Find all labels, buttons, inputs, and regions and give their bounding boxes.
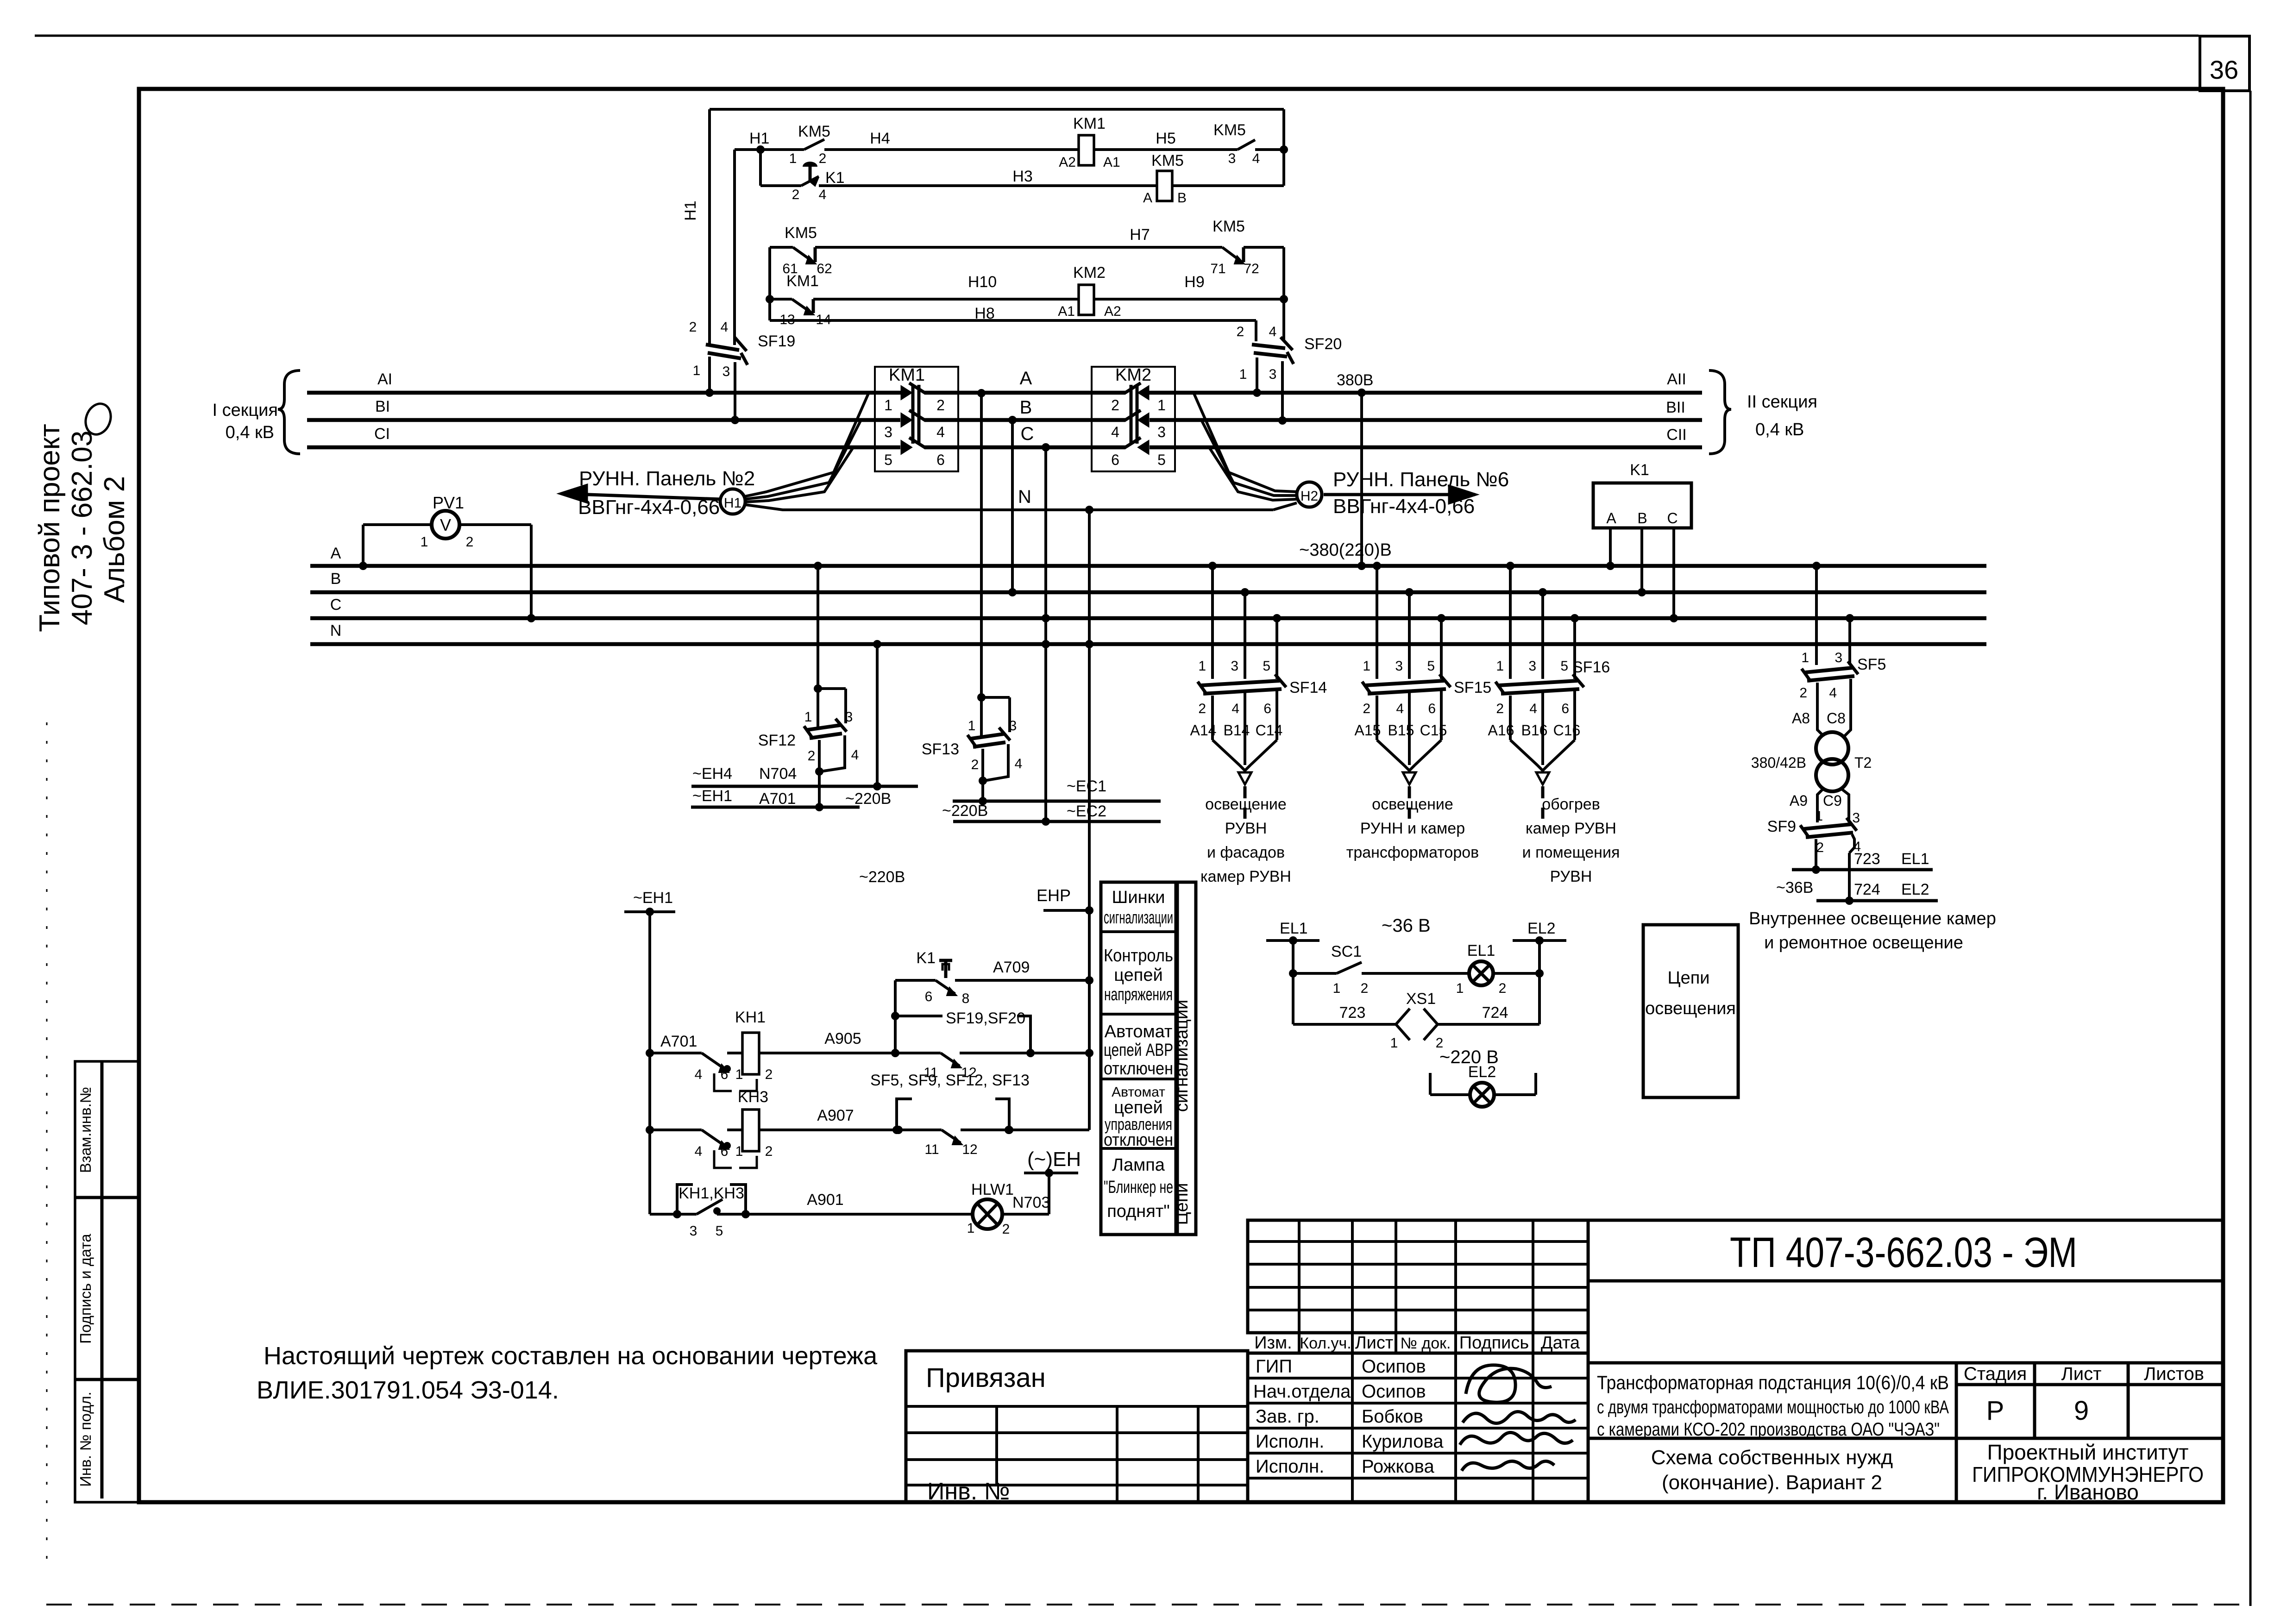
svg-text:KM1: KM1	[786, 272, 819, 290]
svg-text:KM5: KM5	[1151, 152, 1184, 169]
svg-text:KM5: KM5	[785, 224, 817, 242]
contact KM5 1-2 (H4)	[804, 139, 824, 150]
svg-text:SF14: SF14	[1289, 679, 1327, 696]
signature scribbles	[1466, 1365, 1552, 1402]
svg-text:Лист: Лист	[1355, 1333, 1394, 1353]
svg-text:11: 11	[924, 1142, 939, 1157]
svg-text:Инв. №: Инв. №	[927, 1478, 1010, 1505]
wire line 723 EL1	[1792, 868, 1933, 872]
wire EH1 left vertical	[648, 912, 651, 1214]
wire A905	[759, 1052, 895, 1054]
title block header labels	[1248, 1331, 1588, 1335]
wire line A701	[691, 806, 860, 809]
svg-text:EL2: EL2	[1468, 1063, 1496, 1081]
svg-text:1: 1	[1333, 981, 1341, 996]
node (~)EH	[1048, 1173, 1050, 1214]
sheet number box 36	[2200, 36, 2249, 91]
title block document number cell	[1588, 1220, 2223, 1281]
svg-text:г. Иваново: г. Иваново	[2037, 1480, 2139, 1504]
svg-text:Рожкова: Рожкова	[1362, 1456, 1434, 1477]
svg-text:N704: N704	[759, 765, 797, 783]
svg-text:C: C	[330, 596, 342, 614]
svg-text:3: 3	[1528, 658, 1536, 674]
wire rung H3	[760, 184, 801, 187]
svg-text:HLW1: HLW1	[971, 1181, 1014, 1198]
wire T2 outputs	[1817, 788, 1824, 822]
svg-text:3: 3	[1852, 810, 1860, 826]
svg-text:№ док.: № док.	[1401, 1335, 1451, 1352]
svg-text:SF5: SF5	[1857, 656, 1886, 673]
svg-text:Инв. № подл.: Инв. № подл.	[77, 1392, 94, 1487]
svg-text:N: N	[330, 622, 342, 640]
svg-text:V: V	[440, 515, 451, 534]
svg-text:36: 36	[2210, 55, 2238, 84]
svg-text:SF12: SF12	[758, 732, 796, 749]
svg-text:2: 2	[808, 748, 816, 764]
svg-text:освещение: освещение	[1205, 796, 1287, 813]
svg-text:723: 723	[1854, 850, 1880, 868]
contact K1 with pushbutton (H3)	[801, 176, 819, 186]
svg-text:Курилова: Курилова	[1362, 1431, 1444, 1452]
svg-text:4: 4	[1015, 756, 1023, 771]
svg-text:6: 6	[721, 1067, 729, 1082]
svg-text:AII: AII	[1667, 370, 1686, 388]
svg-text:5: 5	[1157, 451, 1166, 468]
svg-text:SF19,SF20: SF19,SF20	[946, 1010, 1025, 1027]
wire SF20 pin3 to bus BII	[1281, 361, 1284, 420]
KM2 contact row C	[1138, 441, 1149, 454]
title block empty band	[1588, 1281, 2223, 1363]
feeder arrow РУНН panel 2	[561, 494, 720, 499]
svg-text:1: 1	[804, 709, 812, 725]
svg-text:H4: H4	[870, 130, 890, 147]
svg-text:ГИП: ГИП	[1256, 1356, 1292, 1377]
svg-text:1: 1	[421, 534, 428, 550]
svg-text:A901: A901	[807, 1191, 843, 1209]
svg-text:B: B	[331, 570, 341, 588]
wire K1 lead A	[1609, 528, 1612, 566]
svg-text:EL1: EL1	[1467, 942, 1495, 959]
svg-text:4: 4	[695, 1144, 703, 1159]
scan page edge bottom dashed line	[46, 1604, 2251, 1605]
lamp HLW1	[973, 1199, 1002, 1229]
svg-text:2: 2	[792, 187, 800, 202]
svg-text:~EC2: ~EC2	[1067, 803, 1106, 820]
svg-text:2: 2	[936, 397, 945, 414]
breaker SF12	[814, 684, 822, 693]
svg-text:Исполн.: Исполн.	[1256, 1456, 1324, 1477]
svg-text:3: 3	[845, 709, 853, 725]
bus lower B	[310, 590, 1986, 595]
svg-text:6: 6	[1111, 451, 1119, 468]
node H1	[756, 145, 765, 154]
svg-text:EHP: EHP	[1037, 886, 1071, 905]
svg-text:и фасадов: и фасадов	[1207, 844, 1285, 861]
relay coil KH1	[742, 1033, 759, 1074]
svg-text:CI: CI	[374, 425, 390, 443]
svg-text:4: 4	[851, 747, 859, 763]
svg-text:C15: C15	[1420, 722, 1447, 739]
svg-text:A905: A905	[824, 1030, 861, 1047]
wire SF5 outputs to T2	[1816, 683, 1819, 719]
svg-text:723: 723	[1339, 1004, 1366, 1022]
svg-text:~EC1: ~EC1	[1067, 778, 1106, 795]
svg-text:Изм.: Изм.	[1254, 1333, 1292, 1353]
svg-text:5: 5	[1560, 658, 1568, 674]
svg-text:освещения: освещения	[1645, 999, 1736, 1018]
wire A907 to contact	[759, 1129, 898, 1131]
svg-text:B: B	[1177, 190, 1187, 206]
svg-text:"Блинкер не: "Блинкер не	[1104, 1178, 1173, 1197]
relay K1 box	[1593, 483, 1691, 528]
lamp EL2 circuit	[1429, 1073, 1432, 1095]
wire box2 top	[770, 246, 793, 249]
svg-text:EL2: EL2	[1901, 881, 1929, 898]
title block attachment box Привязан	[906, 1351, 1248, 1502]
KM2 tie bar	[1130, 385, 1133, 444]
svg-text:1: 1	[1198, 658, 1206, 674]
svg-text:4: 4	[695, 1067, 703, 1082]
breaker SF14 pin wires	[1211, 566, 1214, 679]
svg-text:A: A	[331, 545, 341, 562]
svg-text:(окончание). Вариант 2: (окончание). Вариант 2	[1662, 1471, 1882, 1494]
svg-text:BI: BI	[375, 398, 390, 415]
svg-text:3: 3	[1228, 151, 1236, 166]
svg-text:H1: H1	[749, 130, 769, 147]
svg-text:Кол.уч.: Кол.уч.	[1300, 1335, 1351, 1352]
svg-text:~220В: ~220В	[845, 790, 891, 808]
svg-text:EL2: EL2	[1527, 920, 1556, 937]
KM1 tie bar	[911, 385, 915, 444]
bus BII	[1150, 418, 1702, 422]
svg-text:2: 2	[1361, 981, 1369, 996]
svg-text:A709: A709	[993, 959, 1030, 976]
svg-text:Нач.отдела: Нач.отдела	[1253, 1381, 1351, 1402]
wire SF19 pin1 to bus AI	[708, 357, 711, 393]
bus AII	[1147, 391, 1702, 395]
wire box2 bottom	[770, 319, 1256, 322]
coil KM5 A-B	[1157, 171, 1172, 201]
contact KH1 4-6	[702, 1053, 727, 1071]
wire EL2 vertical	[1538, 941, 1541, 1024]
svg-text:5: 5	[716, 1223, 723, 1239]
wire branch H1 to H3	[759, 150, 762, 186]
fan wires to H2	[1194, 394, 1297, 492]
svg-text:отключен: отключен	[1104, 1130, 1173, 1150]
svg-text:H1: H1	[682, 201, 699, 220]
node H2 circle	[1297, 482, 1322, 507]
wire line EC2	[953, 820, 1161, 823]
svg-text:C8: C8	[1827, 710, 1846, 727]
svg-text:3: 3	[1269, 367, 1277, 382]
coil KM1 (top)	[1079, 135, 1094, 165]
svg-text:EL1: EL1	[1280, 920, 1308, 937]
svg-text:3: 3	[723, 364, 730, 379]
wire SF14 output funnel	[1211, 696, 1214, 740]
contactor KM2 box	[1092, 367, 1175, 471]
svg-text:A2: A2	[1104, 304, 1121, 319]
svg-text:1: 1	[1801, 650, 1809, 665]
title block staff rows	[1248, 1353, 1588, 1502]
scan page edge left dotted line	[46, 722, 48, 1570]
svg-text:РУВН: РУВН	[1550, 868, 1592, 885]
svg-text:A701: A701	[759, 790, 796, 808]
svg-text:1: 1	[968, 718, 976, 734]
svg-text:Зав. гр.: Зав. гр.	[1256, 1406, 1319, 1427]
svg-text:KM5: KM5	[798, 123, 830, 140]
svg-text:2: 2	[1496, 701, 1504, 716]
svg-text:2: 2	[1237, 324, 1244, 339]
svg-text:4: 4	[1269, 324, 1277, 339]
svg-text:SF20: SF20	[1304, 335, 1342, 353]
svg-text:~36 В: ~36 В	[1382, 915, 1431, 936]
svg-text:ТП 407-3-662.03 - ЭМ: ТП 407-3-662.03 - ЭМ	[1730, 1229, 2077, 1276]
svg-text:4: 4	[1529, 701, 1537, 716]
svg-text:РУНН. Панель №2: РУНН. Панель №2	[579, 467, 755, 490]
wire line EC1	[953, 800, 1161, 803]
breaker SF14 tie bar	[1201, 681, 1280, 685]
wire feed lower C and EC2	[1042, 443, 1050, 451]
bus AI	[307, 391, 904, 395]
wire K1 contact branch A709	[894, 980, 897, 1053]
svg-text:4: 4	[721, 320, 729, 335]
svg-text:N703: N703	[1012, 1194, 1050, 1211]
svg-text:8: 8	[962, 991, 970, 1006]
svg-text:K1: K1	[916, 949, 936, 967]
svg-text:C14: C14	[1256, 722, 1283, 739]
svg-text:3: 3	[884, 424, 892, 440]
svg-text:Шинки: Шинки	[1112, 888, 1165, 907]
svg-text:и ремонтное освещение: и ремонтное освещение	[1764, 933, 1963, 953]
svg-text:Т2: Т2	[1854, 754, 1872, 771]
wire SF19 pin3 to bus BI	[734, 362, 736, 420]
svg-text:3: 3	[690, 1223, 697, 1239]
bus A mid segment	[924, 391, 1125, 395]
svg-text:4: 4	[1829, 685, 1837, 701]
svg-text:с двумя трансформаторами мощно: с двумя трансформаторами мощностью до 10…	[1597, 1397, 1949, 1417]
breaker SF16 pin wires	[1509, 566, 1512, 679]
svg-text:4: 4	[936, 424, 945, 440]
svg-text:цепей: цепей	[1114, 966, 1162, 985]
svg-text:6: 6	[1428, 701, 1436, 716]
breaker SF16 tie bar	[1499, 681, 1577, 685]
svg-text:KM2: KM2	[1073, 264, 1106, 282]
svg-text:~220В: ~220В	[942, 802, 988, 820]
svg-text:A: A	[1606, 510, 1616, 527]
wire EHP vertical	[1088, 910, 1091, 1130]
wire rung A701-A905	[646, 1049, 654, 1057]
svg-text:~220В: ~220В	[859, 868, 905, 886]
svg-text:Осипов: Осипов	[1362, 1356, 1426, 1377]
fan wires to H1	[745, 394, 868, 496]
svg-text:SF16: SF16	[1572, 658, 1610, 676]
wire PV1 right to bus C	[530, 525, 533, 618]
svg-text:724: 724	[1854, 881, 1880, 898]
KM1 contact row A	[901, 386, 911, 399]
wire SF9 pin2 to line 723	[1815, 839, 1817, 870]
svg-text:обогрев: обогрев	[1542, 796, 1600, 813]
svg-text:1: 1	[967, 1221, 975, 1236]
svg-text:Настоящий чертеж составлен на: Настоящий чертеж составлен на основании …	[264, 1342, 878, 1370]
brace section I	[278, 370, 300, 454]
drawing frame	[139, 89, 2223, 1502]
svg-text:поднят": поднят"	[1107, 1202, 1170, 1221]
wire K1 lead C	[1672, 528, 1675, 618]
wire SF15 output funnel	[1376, 696, 1378, 740]
svg-text:6: 6	[1561, 701, 1569, 716]
svg-text:Подпись: Подпись	[1459, 1333, 1529, 1353]
svg-text:~EH1: ~EH1	[633, 889, 673, 907]
svg-text:Типовой проект: Типовой проект	[34, 424, 66, 632]
bus lower N	[310, 642, 1986, 646]
svg-text:A1: A1	[1103, 155, 1120, 170]
KM1 contact row C	[901, 441, 911, 454]
svg-text:PV1: PV1	[433, 493, 464, 512]
svg-text:1: 1	[1363, 658, 1370, 674]
svg-text:6: 6	[936, 451, 945, 468]
svg-text:5: 5	[1427, 658, 1435, 674]
svg-text:~380(220)В: ~380(220)В	[1299, 540, 1392, 560]
title block object description cell	[1588, 1363, 1956, 1438]
svg-text:Исполн.: Исполн.	[1256, 1431, 1324, 1452]
svg-text:A1: A1	[1058, 304, 1075, 319]
breaker SF13	[977, 693, 986, 702]
wire N line	[804, 508, 1273, 511]
svg-text:1: 1	[1456, 981, 1464, 996]
stamp blob over 03	[82, 400, 115, 438]
svg-text:5: 5	[1263, 658, 1270, 674]
svg-text:Цепи: Цепи	[1667, 968, 1709, 988]
svg-text:Подпись и дата: Подпись и дата	[77, 1234, 94, 1344]
svg-text:4: 4	[1396, 701, 1404, 716]
svg-text:K1: K1	[1630, 461, 1649, 479]
svg-text:SF5, SF9, SF12, SF13: SF5, SF9, SF12, SF13	[870, 1072, 1030, 1089]
svg-text:Бобков: Бобков	[1362, 1406, 1423, 1427]
svg-text:SF15: SF15	[1454, 679, 1491, 696]
bus lower C	[310, 616, 1986, 621]
svg-text:A907: A907	[817, 1107, 854, 1124]
wire H9	[1094, 298, 1284, 301]
svg-text:трансформаторов: трансформаторов	[1346, 844, 1479, 861]
svg-text:KM2: KM2	[1115, 365, 1151, 385]
svg-text:РУВН: РУВН	[1225, 820, 1267, 837]
wire lamp to EH	[1002, 1213, 1049, 1216]
svg-text:C9: C9	[1823, 792, 1842, 809]
svg-text:ВВГнг-4х4-0,66: ВВГнг-4х4-0,66	[1333, 495, 1475, 518]
svg-text:71: 71	[1210, 261, 1225, 276]
svg-text:A2: A2	[1059, 155, 1076, 170]
node H4 right	[1280, 145, 1288, 154]
svg-text:(~)EH: (~)EH	[1027, 1148, 1081, 1171]
wire SF12 output to A701	[818, 771, 821, 807]
wire feed lower A from AII	[1357, 389, 1366, 397]
svg-text:KH1: KH1	[735, 1009, 766, 1026]
svg-text:1: 1	[1390, 1035, 1398, 1051]
bus B mid segment	[924, 418, 1125, 422]
svg-text:SF13: SF13	[922, 740, 959, 758]
svg-text:1: 1	[884, 397, 892, 414]
svg-text:6: 6	[1263, 701, 1271, 716]
svg-text:Взам.инв.№: Взам.инв.№	[77, 1087, 94, 1173]
svg-text:1: 1	[1157, 397, 1166, 414]
svg-text:3: 3	[1009, 718, 1017, 734]
wire SF12 pins 2-4 join	[818, 740, 821, 771]
svg-text:2: 2	[1499, 981, 1507, 996]
svg-text:2: 2	[765, 1067, 773, 1082]
svg-text:РУНН и камер: РУНН и камер	[1360, 820, 1465, 837]
svg-text:SC1: SC1	[1331, 943, 1362, 960]
bus CI	[307, 445, 900, 450]
svg-text:0,4 кВ: 0,4 кВ	[226, 423, 274, 442]
svg-text:3: 3	[1835, 650, 1842, 665]
wire N to H2	[1273, 503, 1297, 510]
svg-text:SF19: SF19	[758, 332, 795, 350]
svg-text:4: 4	[819, 187, 827, 202]
bracket SF5 SF9 SF12 SF13	[897, 1099, 912, 1130]
svg-text:A701: A701	[660, 1033, 697, 1050]
svg-text:Листов: Листов	[2144, 1364, 2204, 1384]
wire rung H10/H8	[813, 298, 1079, 301]
svg-text:N: N	[1018, 487, 1031, 507]
wire rung H4	[760, 148, 804, 151]
svg-text:2: 2	[1799, 685, 1807, 701]
svg-text:3: 3	[1157, 424, 1166, 440]
wire SF20 pin1 to bus AII	[1256, 357, 1258, 393]
svg-text:II секция: II секция	[1747, 392, 1817, 412]
svg-text:H5: H5	[1156, 130, 1175, 147]
svg-text:A: A	[1020, 368, 1032, 389]
svg-text:A: A	[1143, 190, 1152, 206]
svg-text:KH1,KH3: KH1,KH3	[679, 1185, 744, 1202]
svg-text:камер РУВН: камер РУВН	[1200, 868, 1291, 885]
svg-text:CII: CII	[1666, 426, 1686, 444]
svg-text:KM1: KM1	[1073, 115, 1106, 132]
contact KH3 4-6	[702, 1130, 727, 1147]
svg-text:Стадия: Стадия	[1964, 1364, 2027, 1384]
svg-text:3: 3	[1395, 658, 1403, 674]
wire SF13 pins 2-4 join	[981, 749, 984, 781]
svg-text:освещение: освещение	[1372, 796, 1453, 813]
wire rung A907	[646, 1126, 654, 1134]
svg-text:Трансформаторная подстанция 10: Трансформаторная подстанция 10(6)/0,4 кВ	[1597, 1372, 1949, 1393]
svg-text:Р: Р	[1986, 1396, 2004, 1426]
svg-text:1: 1	[789, 151, 797, 166]
wire box2 left	[768, 247, 771, 320]
wire feed N to EHP	[1085, 506, 1093, 514]
wire N704 feed from bus N	[873, 640, 881, 648]
svg-text:6: 6	[925, 989, 933, 1004]
svg-text:3: 3	[1231, 658, 1238, 674]
breaker SF15 tie bar	[1366, 681, 1444, 685]
svg-text:4: 4	[1252, 151, 1260, 166]
svg-text:2: 2	[689, 320, 697, 335]
wire N to H1	[746, 505, 1273, 510]
svg-text:I секция: I секция	[213, 401, 278, 420]
svg-text:B: B	[1637, 510, 1647, 527]
svg-text:4: 4	[1111, 424, 1119, 440]
coil KM2	[1079, 285, 1094, 315]
wire SF13 output to EC1	[981, 781, 984, 801]
bus CII	[1150, 445, 1702, 450]
wire line 724 EL2	[1816, 899, 1938, 903]
voltmeter PV1	[432, 511, 459, 539]
svg-text:1: 1	[1239, 367, 1247, 382]
svg-text:~EH4: ~EH4	[692, 765, 732, 783]
feeder arrow РУНН panel 6	[1324, 493, 1475, 496]
svg-text:Проектный институт: Проектный институт	[1987, 1440, 2189, 1464]
svg-text:AI: AI	[377, 370, 392, 388]
svg-text:2: 2	[1111, 397, 1119, 414]
